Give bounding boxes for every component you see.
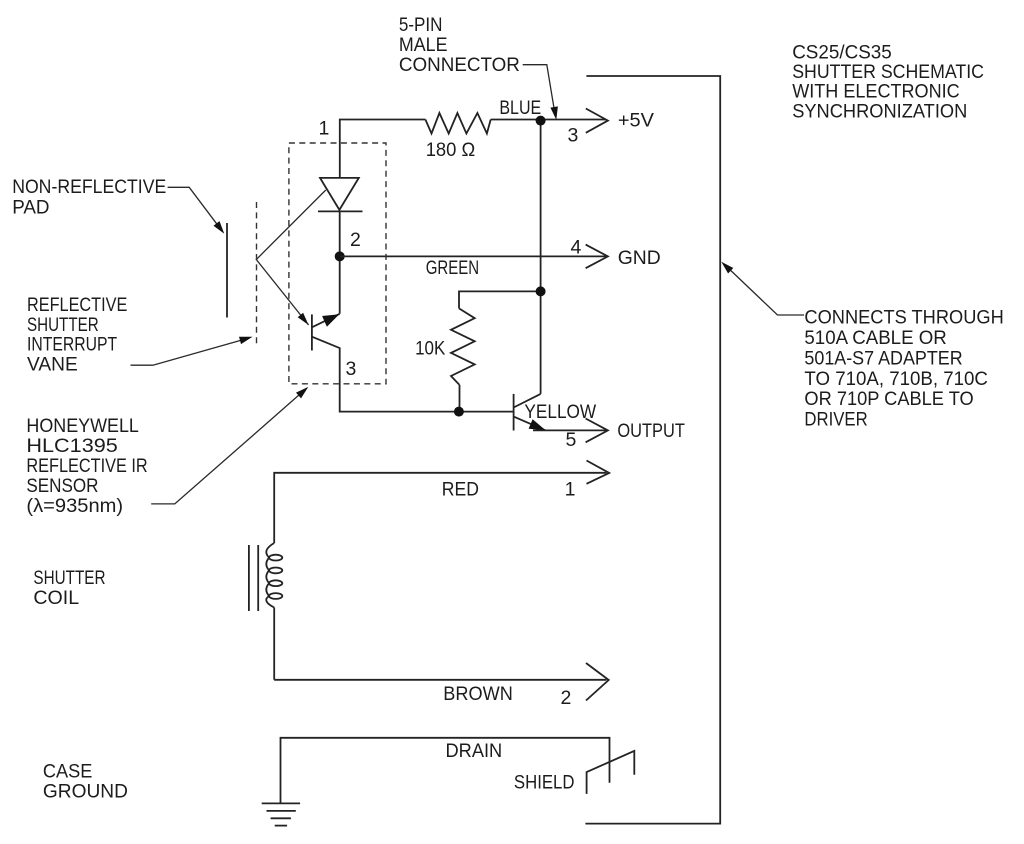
svg-text:SENSOR: SENSOR	[26, 475, 98, 497]
svg-text:OR 710P CABLE TO: OR 710P CABLE TO	[804, 388, 973, 410]
svg-text:YELLOW: YELLOW	[524, 401, 596, 423]
svg-text:5-PIN: 5-PIN	[399, 14, 443, 36]
svg-text:TO 710A, 710B, 710C: TO 710A, 710B, 710C	[804, 368, 988, 390]
svg-text:SHUTTER: SHUTTER	[27, 314, 99, 336]
svg-text:(λ=935nm): (λ=935nm)	[26, 495, 123, 517]
svg-text:SHIELD: SHIELD	[514, 771, 575, 793]
svg-text:3: 3	[568, 125, 579, 147]
svg-text:501A-S7 ADAPTER: 501A-S7 ADAPTER	[804, 347, 962, 369]
svg-text:2: 2	[350, 229, 361, 251]
svg-text:CONNECTOR: CONNECTOR	[399, 54, 520, 76]
svg-text:GND: GND	[618, 247, 661, 269]
svg-text:REFLECTIVE IR: REFLECTIVE IR	[26, 455, 147, 477]
svg-text:10K: 10K	[415, 338, 445, 360]
svg-text:4: 4	[571, 237, 582, 259]
svg-text:NON-REFLECTIVE: NON-REFLECTIVE	[12, 176, 166, 198]
svg-text:COIL: COIL	[33, 587, 79, 609]
svg-text:GREEN: GREEN	[426, 257, 479, 279]
svg-text:BROWN: BROWN	[443, 683, 513, 705]
svg-text:2: 2	[561, 687, 572, 709]
svg-text:SHUTTER: SHUTTER	[33, 567, 105, 589]
svg-text:REFLECTIVE: REFLECTIVE	[27, 294, 127, 316]
svg-text:HONEYWELL: HONEYWELL	[26, 415, 139, 437]
svg-text:CONNECTS THROUGH: CONNECTS THROUGH	[804, 307, 1003, 329]
svg-text:CS25/CS35: CS25/CS35	[792, 41, 892, 63]
svg-text:HLC1395: HLC1395	[26, 435, 118, 457]
svg-text:180 Ω: 180 Ω	[426, 139, 476, 161]
svg-text:OUTPUT: OUTPUT	[617, 420, 685, 442]
svg-text:BLUE: BLUE	[499, 97, 541, 119]
svg-text:1: 1	[319, 117, 330, 139]
svg-text:DRIVER: DRIVER	[804, 409, 867, 431]
svg-text:SHUTTER SCHEMATIC: SHUTTER SCHEMATIC	[792, 61, 984, 83]
svg-text:510A CABLE OR: 510A CABLE OR	[804, 327, 946, 349]
svg-text:+5V: +5V	[618, 110, 654, 132]
svg-text:CASE: CASE	[43, 760, 93, 782]
svg-text:WITH ELECTRONIC: WITH ELECTRONIC	[792, 81, 960, 103]
svg-text:VANE: VANE	[27, 354, 78, 376]
svg-text:RED: RED	[442, 479, 479, 501]
svg-text:GROUND: GROUND	[43, 781, 128, 803]
svg-text:1: 1	[565, 479, 576, 501]
svg-text:MALE: MALE	[399, 34, 448, 56]
svg-text:INTERRUPT: INTERRUPT	[27, 334, 117, 356]
svg-text:SYNCHRONIZATION: SYNCHRONIZATION	[792, 100, 967, 122]
svg-text:DRAIN: DRAIN	[446, 740, 503, 762]
svg-text:5: 5	[566, 429, 577, 451]
svg-text:3: 3	[346, 358, 357, 380]
svg-text:PAD: PAD	[12, 196, 49, 218]
